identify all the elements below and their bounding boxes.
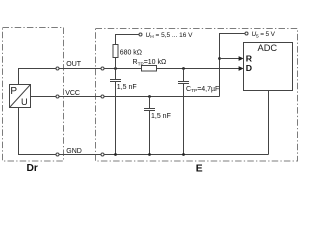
wire GND from sensor down and across: [19, 108, 269, 155]
node junction VCC / 1.5nF: [148, 95, 151, 98]
svg-text:OUT: OUT: [66, 61, 82, 68]
enclosure Dr (pressure sensor) dash-dot border: [3, 28, 64, 162]
terminal OUT sensor side: [56, 67, 59, 70]
svg-text:R: R: [246, 53, 253, 63]
terminal U5 supply: [245, 32, 248, 35]
svg-text:680 kΩ: 680 kΩ: [120, 49, 142, 56]
terminal VCC sensor side: [56, 95, 59, 98]
wire U5 down to VCC rail: [220, 34, 245, 97]
arrowhead into ADC D input: [239, 66, 244, 71]
svg-text:E: E: [196, 163, 203, 174]
wire OUT rail to RTP: [58, 68, 142, 70]
svg-text:1,5 nF: 1,5 nF: [151, 113, 171, 120]
wire ADC ground down: [268, 91, 270, 155]
terminal OUT ECU side: [101, 67, 104, 70]
wire to ADC R input: [220, 58, 240, 60]
capacitor 1,5 nF (VCC to GND): [149, 97, 151, 109]
node junction GND / 1.5nF (OUT cap): [114, 153, 117, 156]
svg-text:Dr: Dr: [27, 163, 38, 174]
ADC block: [244, 43, 293, 91]
enclosure E (evaluation circuit) dash-dot border: [96, 29, 298, 162]
terminal GND sensor side: [56, 153, 59, 156]
arrowhead into ADC R input: [239, 56, 244, 61]
terminal GND ECU side: [101, 153, 104, 156]
node junction D line / CTP: [182, 67, 185, 70]
svg-text:GND: GND: [66, 148, 82, 155]
svg-text:D: D: [246, 63, 252, 73]
wire VCC from sensor to U5 vertical: [31, 96, 220, 98]
wire sensor output up to OUT rail: [19, 69, 58, 85]
wire 680k to UH terminal: [116, 35, 141, 45]
terminal VCC ECU side: [101, 95, 104, 98]
terminal UH supply: [139, 33, 142, 36]
svg-text:P: P: [10, 86, 17, 97]
svg-text:U: U: [21, 97, 28, 107]
node junction R reference tee: [218, 57, 221, 60]
svg-text:1,5 nF: 1,5 nF: [117, 84, 137, 91]
svg-text:ADC: ADC: [258, 43, 278, 53]
node junction GND / CTP: [182, 153, 185, 156]
node junction GND / 1.5nF (VCC cap): [148, 153, 151, 156]
svg-text:VCC: VCC: [65, 90, 80, 97]
capacitor CTP = 4,7 uF (D line to GND): [183, 69, 185, 82]
node junction OUT / 680k / 1.5nF: [114, 67, 117, 70]
sensor element P/U box: [10, 85, 31, 108]
resistor 680 kOhm pull-up: [115, 58, 117, 69]
resistor RTP = 10 kOhm: [142, 66, 157, 72]
capacitor 1,5 nF (OUT to GND): [115, 69, 117, 80]
wire RTP to ADC D input: [157, 68, 240, 70]
